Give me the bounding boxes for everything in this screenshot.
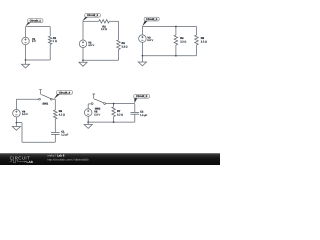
callout Circuit_5 [134,94,150,103]
wire left-bottom C3 [141,42,143,56]
svg-text:http://circuitlab.com/c/7dfpbn: http://circuitlab.com/c/7dfpbnj4j42h [48,159,90,162]
wire return-up C4 [21,123,23,143]
resistor R7 [112,107,116,117]
voltage source V2 [79,40,87,48]
capacitor C2 [131,112,140,114]
wire right-top C1 [49,27,51,37]
resistor R4 [174,35,178,45]
callout Circuit_1 [25,19,43,27]
voltage source V4 [13,109,21,117]
wire right-top C5 [134,104,136,113]
capacitor C1 [51,133,60,135]
wire R6 to C1 cap [54,119,56,132]
wire top-left C4 [16,98,38,100]
callout Circuit_2 [82,13,100,21]
svg-text:Circuit_3: Circuit_3 [146,18,158,21]
ground C5 [84,122,92,128]
wire to ground node C4 [16,122,22,124]
logo waveform [10,160,25,163]
junction dot R7 top [113,103,115,105]
wire right-bottom C1 [49,44,51,60]
wire top-right C2 [109,20,118,22]
wire R4 bottom lead [175,45,177,56]
svg-text:5.0 V: 5.0 V [22,113,28,116]
wire SW2 to R7 node [106,103,135,105]
svg-text:1 Ω: 1 Ω [53,40,57,43]
wire V5 up [87,104,89,109]
resistor R3 [117,40,121,50]
junction dot R4 top [175,26,177,28]
wire bottom C4 [22,141,55,143]
wire top-left C2 [83,20,99,22]
wire bottom C3 [142,55,196,57]
svg-text:3.3 Ω: 3.3 Ω [122,46,128,49]
wire C2 bottom lead [134,114,136,122]
junction dot R7 bottom [113,121,115,123]
resistor R5 [195,35,199,45]
svg-text:5.0 V: 5.0 V [147,39,153,42]
wire top C1 [26,26,51,28]
junction dot C2 ground node [82,59,84,61]
wire right-bottom C2 [118,50,120,61]
resistor R6 [54,110,58,119]
svg-text:1.5 µF: 1.5 µF [140,114,148,117]
switch SW1 [39,90,53,101]
wire left-top C1 [25,27,27,38]
wire right-top C2 [118,21,120,40]
junction dot C4 ground node [16,122,18,124]
junction dot R4 bottom [175,55,177,57]
wire left-bottom C2 [82,47,84,60]
junction dot C1 ground node [25,59,27,61]
svg-text:1.2 µF: 1.2 µF [61,133,69,136]
wire bottom C1 [26,59,51,61]
wire bottom C5 [88,121,135,123]
wire left-top C3 [141,27,143,36]
svg-text:4.5 V: 4.5 V [88,44,94,47]
wire bottom C2 [83,59,119,61]
svg-text:5.0 V: 5.0 V [94,114,100,117]
wire V4 bottom [15,117,17,123]
svg-text:Circuit_5: Circuit_5 [136,95,148,98]
svg-text:SW1: SW1 [42,102,48,105]
ground C1 [21,60,29,68]
resistor R2 [99,20,110,24]
junction dot C5 ground node [87,121,89,123]
wire switch to corner C4 [52,98,55,100]
svg-text:3.3 Ω: 3.3 Ω [180,40,186,43]
wire left-top C2 [82,21,84,40]
switch SW2 [91,94,105,105]
svg-text:Circuit_1: Circuit_1 [30,20,42,23]
wire V5 bottom [87,116,89,122]
ground C2 [79,60,87,66]
wire R5 bottom lead [196,45,198,56]
svg-text:3.3 Ω: 3.3 Ω [201,40,207,43]
svg-text:LAB: LAB [27,160,34,164]
ground C3 [138,56,146,66]
svg-text:2.2 Ω: 2.2 Ω [101,28,107,31]
svg-text:6.2 Ω: 6.2 Ω [59,114,65,117]
junction dot C3 ground node [142,55,144,57]
wire R4 top lead [175,27,177,36]
svg-text:9 V: 9 V [32,40,36,43]
voltage source V5 [84,109,92,117]
wire R7 bottom lead [113,117,115,123]
svg-text:nisha / Lab 8: nisha / Lab 8 [48,154,65,158]
svg-text:Circuit_2: Circuit_2 [87,14,99,17]
svg-text:Circuit_4: Circuit_4 [59,91,71,94]
resistor R1 [48,36,52,44]
wire R7 top lead [113,104,115,107]
wire R5 top lead [196,27,198,36]
voltage source V1 [22,37,30,45]
wire left-top C4 [15,99,17,109]
callout Circuit_4 [54,91,73,100]
wire jog to SW2 [88,103,91,105]
wire top C3 [142,26,196,28]
logo arrow [25,161,27,163]
voltage source V3 [139,35,147,43]
svg-text:6.2 Ω: 6.2 Ω [117,114,123,117]
wire right-top C4 [54,99,56,110]
ground C4 [12,123,20,131]
svg-text:R7: R7 [117,110,121,113]
callout Circuit_3 [142,17,159,26]
wire left-bottom C1 [25,45,27,60]
wire C1 cap down [54,134,56,142]
